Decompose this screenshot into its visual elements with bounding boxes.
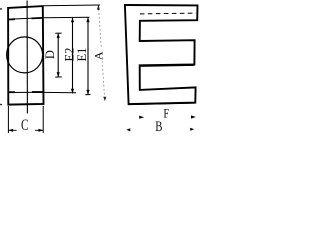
svg-text:B: B <box>155 117 162 134</box>
svg-text:D: D <box>43 50 57 59</box>
svg-text:C: C <box>21 116 28 133</box>
svg-text:A: A <box>92 51 106 60</box>
svg-text:E1: E1 <box>75 48 89 62</box>
svg-text:F: F <box>163 107 169 121</box>
